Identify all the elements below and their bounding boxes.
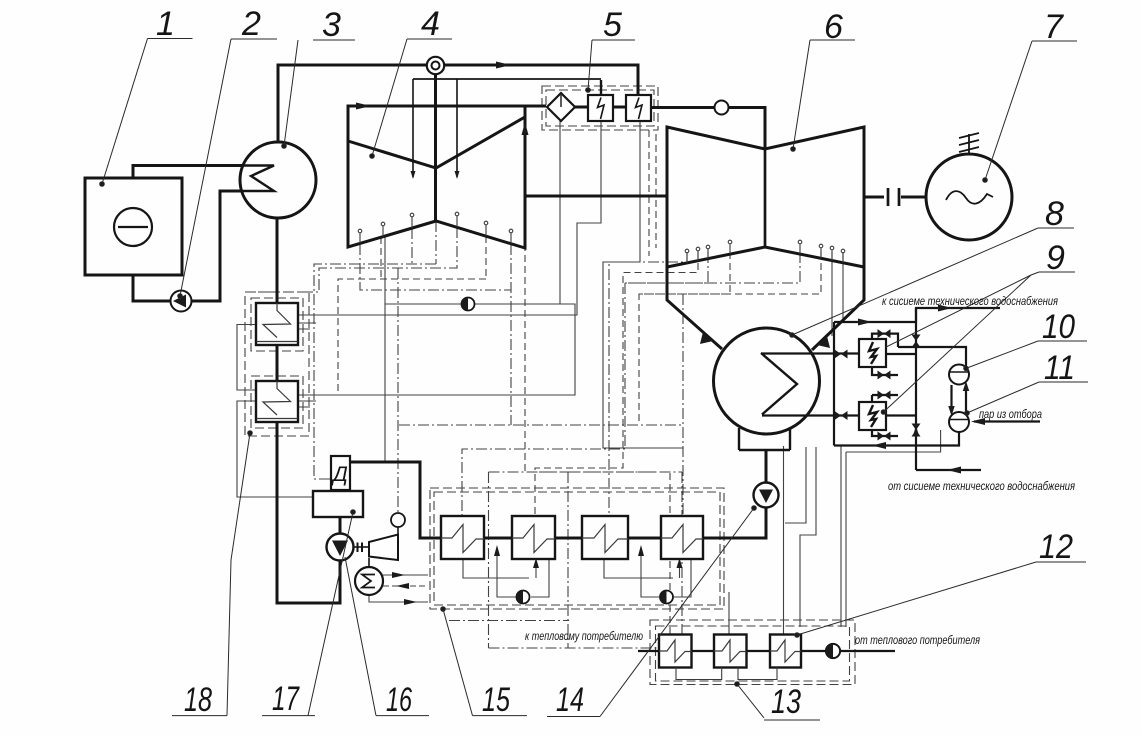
- arrow LP heater D drain inlet: [677, 558, 683, 568]
- wire ejector coolers right riser with valves: [886, 308, 916, 470]
- svg-text:от теплового потребителя: от теплового потребителя: [855, 635, 980, 647]
- svg-text:к тепловому потребителю: к тепловому потребителю: [525, 631, 643, 643]
- arrow LP drain pump 1 discharge: [494, 545, 500, 556]
- reactor core symbol: [114, 208, 152, 246]
- reactor 1: [85, 178, 182, 275]
- wire LP extraction to LP heater C (dash-dot): [609, 252, 687, 516]
- HP turbine extraction nozzles: [358, 212, 513, 244]
- arrow reheater-1 steam taps down: [411, 171, 460, 179]
- wire LP heater drain pump loops pair 2: [604, 551, 691, 597]
- LP heater A: [441, 516, 484, 559]
- arrow HP right exhaust up: [522, 122, 529, 135]
- LP drain pump 1: [517, 591, 530, 604]
- frame LP heater group dividers (dash-dot): [449, 472, 682, 648]
- wire deaerator to feed pump to HP heaters to SG: [277, 218, 340, 603]
- feed pump coupling bars: [358, 543, 363, 553]
- wire HP extraction 3 (dashed): [338, 236, 486, 395]
- turbo-drive steam valve circle: [391, 513, 405, 527]
- LP heater B: [512, 516, 555, 559]
- wire gland-condenser pipes: [369, 575, 428, 602]
- wire LP shaft to generator coupling: [864, 196, 926, 199]
- feed pump: [327, 534, 354, 561]
- valve riser lower: [912, 424, 921, 437]
- wire reheater-2 drain: [603, 121, 683, 448]
- wire separator drain to drain pump line: [559, 121, 561, 304]
- wire turbo-drive steam line (dash-dot): [397, 268, 399, 513]
- arrow ejector interstage up: [963, 381, 969, 391]
- condenser 8: [714, 328, 820, 434]
- svg-text:11: 11: [1044, 349, 1075, 387]
- generator ground symbol: [959, 133, 979, 154]
- wire HP crossover drop to network heater 1 (dashed): [525, 200, 670, 635]
- wire HP turbine admission drop: [434, 74, 437, 221]
- leader 18: [172, 433, 250, 716]
- reheater stage 2 box: [626, 95, 651, 121]
- arrow gland condenser out 2: [404, 599, 417, 605]
- THICK PIPES: [133, 65, 1040, 651]
- gland steam condenser: [355, 567, 383, 595]
- leader 8: [792, 228, 1074, 335]
- svg-text:4: 4: [421, 5, 440, 43]
- arrow ejector drain return: [872, 442, 886, 449]
- wire reheater-1 drain to HP heater 1: [298, 121, 601, 315]
- valve lower cooler top loop: [878, 391, 891, 400]
- wire network heater 2 steam: [728, 592, 730, 635]
- arrow HP exhaust line: [356, 103, 371, 110]
- arrow LP drain pump 2 discharge: [638, 545, 644, 556]
- condensate pump 14: [754, 483, 779, 508]
- ejector cooler 9 upper: [859, 339, 886, 367]
- valve upper cooler bottom loop: [878, 371, 891, 380]
- network pump: [826, 644, 840, 658]
- arrow gland condenser in: [396, 583, 409, 589]
- frame HP heater 18b: [251, 376, 303, 428]
- wire condenser circulating outlet ejector block top: [834, 308, 1000, 322]
- condenser hotwell: [739, 428, 790, 450]
- svg-text:17: 17: [272, 680, 300, 718]
- svg-text:пар из отбора: пар из отбора: [979, 409, 1042, 421]
- valve riser upper: [912, 335, 921, 348]
- wire ejector drains to network frame: [785, 430, 941, 627]
- network heater cascade drains: [676, 668, 777, 680]
- circulation pump 2: [171, 291, 192, 312]
- generator coupling bars: [888, 188, 899, 206]
- svg-text:15: 15: [482, 681, 510, 719]
- separator 5: [547, 93, 575, 121]
- ARROWS: [356, 62, 985, 606]
- valve condenser to lower cooler: [835, 411, 848, 420]
- wire separator to reheaters to LP inlet: [575, 107, 765, 149]
- wire LP heater drain pump loops pair 1: [463, 551, 549, 597]
- wire HP extraction 1 to deaerator (dash-dot): [314, 221, 436, 479]
- leader 11: [967, 382, 1088, 413]
- wire ejector interstage: [952, 385, 967, 414]
- leader 3: [284, 40, 355, 146]
- wire LP exhaust hood left: [667, 267, 722, 349]
- svg-text:Д: Д: [331, 463, 348, 486]
- leader 9: [884, 272, 1076, 412]
- valve condenser to upper cooler: [835, 350, 848, 359]
- arrow ejector interstage down: [948, 406, 954, 416]
- LP turbine 6: [667, 127, 864, 267]
- leader 15: [443, 609, 527, 716]
- svg-text:18: 18: [184, 681, 212, 719]
- svg-text:12: 12: [1039, 528, 1073, 566]
- wire HP extraction 4 (dash-dot): [360, 244, 511, 425]
- wire LP extraction to LP heater B (dashed): [535, 252, 698, 516]
- wire main steam line SG to throttle and reheater 2: [278, 65, 638, 142]
- frame LP heaters 15 inner: [434, 492, 720, 605]
- leader 5: [588, 40, 635, 90]
- arrow ejector steam inlet: [971, 418, 985, 425]
- svg-text:13: 13: [771, 683, 801, 721]
- network heater 1: [659, 635, 692, 668]
- arrow LP exhaust left slant: [700, 332, 713, 344]
- leader 1: [102, 39, 193, 185]
- wire ejector 11 drain return: [834, 432, 959, 446]
- frame separator-reheater unit 5 outer: [542, 86, 658, 130]
- wire LP exhaust hood right: [812, 267, 864, 350]
- LP turbine extraction nozzles: [685, 240, 845, 263]
- HP turbine 4: [348, 117, 525, 248]
- arrow LP heater B drain inlet: [533, 558, 539, 568]
- arrow main steam line: [496, 62, 511, 69]
- generator 7: [926, 154, 1012, 240]
- svg-text:8: 8: [1045, 195, 1064, 233]
- wire turbo-drive steam valve circle link: [369, 527, 398, 567]
- leader 16: [345, 557, 429, 716]
- leader 12: [797, 562, 1086, 635]
- frame network heaters 13 outer: [650, 620, 855, 685]
- valve lower cooler bottom loop: [878, 432, 891, 441]
- arrow CW inlet: [947, 467, 961, 474]
- arrow gland condenser out 1: [392, 572, 405, 578]
- wire steam generator cold leg to circulation pump and reactor: [133, 191, 274, 301]
- THIN-LINE-WEB: [237, 121, 941, 635]
- wire HP extraction 2 to HP-heater frame (dash-dot): [253, 227, 457, 292]
- svg-text:14: 14: [556, 681, 584, 719]
- LP inlet restrictor circle: [715, 101, 729, 115]
- wire HP exhaust to separator: [348, 106, 546, 141]
- LP turbine admission drop: [764, 149, 767, 247]
- arrow LP exhaust right slant: [817, 336, 830, 348]
- leader 4: [372, 39, 452, 156]
- HP heater 18b: [256, 381, 298, 422]
- wire HP heater side stubs: [237, 323, 316, 497]
- frame separator-reheater unit 5 inner: [546, 90, 654, 126]
- leader 6: [793, 40, 855, 149]
- wire ejector 11 steam from extraction: [974, 420, 1040, 422]
- leader 7: [985, 41, 1077, 180]
- arrow CW outlet top: [938, 305, 952, 312]
- deaerator column 17: [331, 456, 350, 490]
- frame HP heaters 18 outer: [245, 292, 309, 436]
- wire reheater frame drains (dashed): [649, 130, 656, 256]
- wire ejector 10 feed: [898, 347, 966, 368]
- svg-text:1: 1: [156, 5, 175, 43]
- wire network heater 3 steam (dash-dot): [783, 446, 785, 635]
- wire LP extraction to LP heater A (dash-dot): [462, 252, 800, 516]
- wire long drain dash-dot to LP heater D: [399, 294, 683, 516]
- wire reactor hot leg to steam generator: [133, 166, 274, 179]
- ejector cooler 9 lower: [859, 402, 886, 430]
- frame LP heaters 15 outer: [430, 488, 724, 609]
- svg-text:от сисиеме технического водосн: от сисиеме технического водоснабжения: [888, 481, 1075, 493]
- FRAMES: [245, 86, 855, 685]
- LP heater D: [661, 516, 703, 559]
- steam generator 3: [240, 142, 316, 218]
- svg-text:5: 5: [603, 6, 622, 44]
- wire condenser hotwell to condensate pump: [350, 450, 766, 538]
- svg-text:к сисиеме технического водосна: к сисиеме технического водоснабжения: [882, 296, 1058, 308]
- network heater 3: [770, 635, 801, 668]
- wire drain pump line to HP heater 2: [298, 237, 575, 462]
- throttle valve on main steam line: [427, 57, 444, 74]
- wire ejector block left risers: [833, 322, 835, 446]
- leader 13: [737, 684, 820, 720]
- drain pump separator line: [462, 298, 475, 311]
- wire ejector cooler small loops: [872, 334, 898, 436]
- wire feed pump coupling to turbo-drive: [354, 546, 370, 548]
- svg-text:2: 2: [241, 5, 261, 43]
- svg-text:3: 3: [322, 6, 341, 44]
- arrow CW outlet horizontal: [858, 319, 872, 326]
- HP heater 18a: [256, 303, 298, 345]
- LP heater C: [582, 516, 628, 559]
- svg-text:9: 9: [1046, 239, 1065, 277]
- frame network heaters 13 inner: [656, 626, 850, 681]
- ejector stage 10: [949, 365, 969, 385]
- svg-text:10: 10: [1042, 308, 1075, 346]
- wire reheater-1 heating steam from HP extraction: [413, 78, 601, 80]
- svg-text:7: 7: [1044, 8, 1064, 46]
- frame HP heater 18a: [251, 298, 303, 351]
- deaerator tank: [313, 491, 363, 517]
- leader 14: [547, 508, 754, 717]
- svg-text:6: 6: [824, 8, 843, 46]
- wire HP to LP crossover: [525, 195, 667, 198]
- turbo-drive 16: [369, 535, 398, 561]
- reheater stage 1 box: [588, 95, 613, 121]
- leader 17: [262, 512, 353, 716]
- ejector stage 11: [949, 412, 969, 432]
- LP drain pump 2: [660, 591, 673, 604]
- svg-text:16: 16: [386, 681, 412, 719]
- network heater 2: [714, 635, 747, 668]
- arrow riser up: [913, 426, 919, 436]
- leader 10: [966, 341, 1087, 368]
- wire circulating water inlet: [916, 469, 981, 471]
- wire LP extraction to ejectors (thin): [832, 252, 843, 336]
- leader 2: [180, 39, 277, 296]
- wire LP extraction 4 (dashed): [639, 252, 821, 425]
- wire network heater line: [638, 650, 895, 652]
- valve upper cooler top loop: [878, 329, 891, 338]
